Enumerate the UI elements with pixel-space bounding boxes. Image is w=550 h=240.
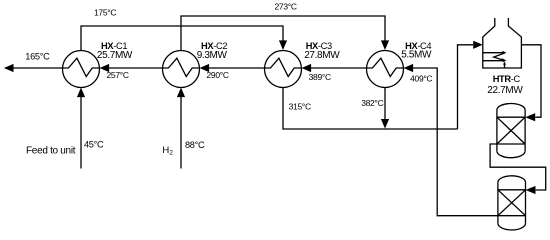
svg-text:273°C: 273°C <box>275 2 297 12</box>
wire HX-C4 to HX-C3 <box>310 67 367 69</box>
arrow up into HX-C2 bottom H2 <box>177 88 185 98</box>
svg-text:5.5MW: 5.5MW <box>401 49 432 60</box>
heater HTR-C furnace body with chimney <box>483 18 522 68</box>
wire heater outlet to reactor R1 <box>521 45 541 117</box>
arrow heater burner small up <box>503 62 506 65</box>
svg-text:382°C: 382°C <box>361 98 383 108</box>
arrow heater coil tip <box>502 58 506 62</box>
svg-text:22.7MW: 22.7MW <box>487 85 523 96</box>
arrow into reactor R2 inlet <box>526 186 536 194</box>
arrow down into HX-C4 top <box>381 40 389 50</box>
svg-text:9.3MW: 9.3MW <box>197 50 228 61</box>
svg-text:88°C: 88°C <box>185 140 205 150</box>
svg-text:H2: H2 <box>162 145 173 157</box>
svg-text:389°C: 389°C <box>309 72 331 82</box>
svg-text:315°C: 315°C <box>289 102 311 112</box>
wire feed to unit riser <box>80 96 82 169</box>
arrow down HX-C4 bottom joining 315C line <box>381 119 389 129</box>
svg-text:Feed to unit: Feed to unit <box>26 145 76 156</box>
wire main horizontal stream y=68 left outlet <box>13 67 63 69</box>
svg-text:165°C: 165°C <box>25 52 50 62</box>
svg-text:290°C: 290°C <box>207 70 229 80</box>
arrow into HX-C4 right side <box>404 64 414 72</box>
svg-text:175°C: 175°C <box>94 8 116 18</box>
arrow up into HX-C1 bottom feed <box>77 88 85 98</box>
svg-text:25.7MW: 25.7MW <box>97 50 133 61</box>
arrow down into HX-C3 top <box>279 40 287 50</box>
wire HX-C4 bottom 382C <box>384 88 386 121</box>
reactor R2 vessel <box>498 176 526 230</box>
wire reactor R1 outlet to reactor R2 <box>490 144 546 190</box>
wire HX-C2 to HX-C1 <box>109 67 163 69</box>
wire return line to HX-C4 from reactor R2 <box>413 68 498 216</box>
arrow 165C outlet pointing left <box>4 64 14 72</box>
arrow into reactor R1 inlet <box>525 113 535 121</box>
svg-text:409°C: 409°C <box>410 74 432 84</box>
arrow into heater HTR-C inlet <box>473 41 483 49</box>
wire HX-C3 bottom to furnace riser 315C <box>283 88 458 130</box>
heat exchanger HX-C4 <box>367 51 404 88</box>
wire 175C top line from HX-C1 top to HX-C3 top <box>81 26 283 51</box>
heat exchanger HX-C2 <box>163 51 200 88</box>
wire riser to heater inlet <box>458 45 474 129</box>
wire H2 riser <box>180 96 182 169</box>
arrow into HX-C2 right side <box>200 64 210 72</box>
svg-text:HTR-C: HTR-C <box>493 74 521 84</box>
heat exchanger HX-C3 <box>265 51 302 88</box>
svg-text:45°C: 45°C <box>84 139 104 149</box>
svg-text:257°C: 257°C <box>107 70 129 80</box>
heat exchanger HX-C1 <box>63 51 100 88</box>
wire 273C top line from HX-C2 top to HX-C4 top <box>181 16 385 51</box>
arrow into HX-C1 right side <box>100 64 110 72</box>
arrow into HX-C3 right side <box>302 64 312 72</box>
wire HX-C3 to HX-C2 <box>209 67 265 69</box>
reactor R1 vessel <box>497 104 525 158</box>
svg-text:27.8MW: 27.8MW <box>304 50 340 61</box>
